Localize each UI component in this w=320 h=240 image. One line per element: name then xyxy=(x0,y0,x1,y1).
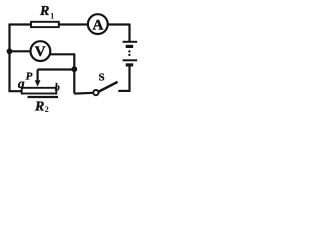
svg-text:A: A xyxy=(92,17,103,33)
switch S blade xyxy=(98,82,117,92)
wire voltmeter-right / slider branch vertical xyxy=(73,54,75,93)
wire bottom right / switch fixed contact xyxy=(118,90,130,92)
battery long plate 2 xyxy=(123,59,138,61)
wire right side, battery column top xyxy=(128,24,130,42)
battery dot 2 xyxy=(128,54,130,56)
wire right side, battery column bottom xyxy=(128,65,130,91)
battery short plate 1 xyxy=(126,45,134,48)
wire slider P to junction xyxy=(38,68,75,70)
svg-text:V: V xyxy=(35,44,46,60)
ammeter A circle xyxy=(88,14,108,34)
rheostat element line under box xyxy=(28,96,59,98)
wire voltmeter right horizontal xyxy=(49,53,75,55)
rheostat slider arrow P xyxy=(36,70,38,82)
svg-text:1: 1 xyxy=(50,12,54,21)
voltmeter U-V circle xyxy=(31,41,51,61)
node junction dot (left wire) xyxy=(7,48,13,54)
battery short plate 2 xyxy=(126,63,134,66)
svg-text:2: 2 xyxy=(45,105,49,114)
wire left side down to rheostat terminal a xyxy=(10,24,23,92)
wire voltmeter left horizontal xyxy=(10,50,32,52)
node junction dot (slider branch) xyxy=(71,66,77,72)
wire bottom left segment to switch pivot xyxy=(74,92,93,95)
svg-text:R: R xyxy=(39,4,49,19)
battery dot 1 xyxy=(128,50,130,52)
svg-text:S: S xyxy=(98,72,104,84)
svg-text:R: R xyxy=(34,99,44,114)
rheostat R2 box xyxy=(22,88,57,94)
battery long plate 1 xyxy=(123,41,138,43)
wire top (R1 / ammeter row) xyxy=(10,23,130,25)
resistor R1 box xyxy=(31,22,59,27)
svg-text:a: a xyxy=(18,76,25,91)
svg-text:P: P xyxy=(26,71,33,83)
switch pivot ring xyxy=(93,90,98,95)
svg-text:b: b xyxy=(55,82,60,93)
